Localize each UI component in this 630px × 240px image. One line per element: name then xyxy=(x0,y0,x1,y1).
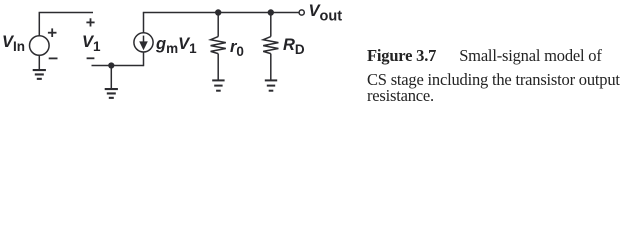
wire: RD bottom lead xyxy=(270,54,272,80)
label Vout xyxy=(309,2,343,25)
wire: current source top lead xyxy=(143,13,145,34)
polarity + of Vin xyxy=(48,28,57,37)
label gmV1 xyxy=(156,35,197,56)
node Vout: open terminal circle xyxy=(299,10,304,15)
wire: RD top lead xyxy=(270,13,272,37)
caption line 1 xyxy=(367,48,602,65)
node: junction dot on bottom rail xyxy=(108,62,114,68)
wire: r0 bottom lead xyxy=(217,54,219,80)
caption line 2 xyxy=(367,72,620,89)
value label RD xyxy=(283,36,305,57)
ground (under r0) xyxy=(212,79,224,91)
label Vin xyxy=(2,33,25,54)
ground (under RD) xyxy=(265,79,277,91)
wire: Vin top lead up xyxy=(38,13,40,36)
wire: Vin bottom lead to ground xyxy=(38,55,40,69)
label V1 xyxy=(82,33,101,54)
resistor RD (zigzag) xyxy=(263,37,278,54)
node: junction dot at r0 xyxy=(215,9,221,15)
arrow of current source (downward) xyxy=(139,36,148,51)
wire: top-left rail to V1 + terminal xyxy=(39,12,93,14)
ground (bottom rail) xyxy=(105,88,118,99)
node: junction dot at RD xyxy=(268,9,274,15)
wire: drop from junction to ground xyxy=(110,66,112,89)
wire: top rail to output xyxy=(143,12,299,14)
polarity - of V1 xyxy=(87,57,95,59)
ground (under Vin) xyxy=(33,69,46,80)
polarity + of V1 xyxy=(86,18,94,26)
wire: current source bottom lead xyxy=(143,52,145,66)
wire: r0 top lead xyxy=(217,13,219,37)
circuit schematic: small-signal model of CS stage xyxy=(0,0,630,108)
caption line 3 xyxy=(367,88,434,105)
polarity - of Vin xyxy=(49,57,58,59)
resistor r0 (zigzag) xyxy=(211,37,226,54)
wire: bottom rail xyxy=(92,65,144,67)
current source gmV1 (circle) xyxy=(134,33,153,52)
value label r0 xyxy=(230,38,244,59)
voltage source Vin (circle) xyxy=(30,36,50,56)
